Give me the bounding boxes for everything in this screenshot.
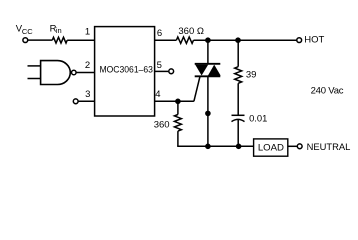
- node NEUTRAL terminal: [297, 144, 302, 149]
- NAND gate body: [41, 61, 71, 85]
- node junction A (triac branch): [205, 37, 211, 43]
- svg-text:4: 4: [155, 89, 160, 100]
- svg-text:5: 5: [157, 60, 162, 71]
- triac Q1 right triangle: [208, 65, 221, 76]
- wire pin 3 terminal to IC: [78, 100, 94, 102]
- svg-text:0.01: 0.01: [249, 113, 267, 124]
- svg-text:6: 6: [157, 28, 162, 39]
- svg-text:39: 39: [246, 70, 257, 81]
- wire junction A down to triac MT2: [207, 40, 209, 63]
- node junction pin 4: [175, 99, 181, 105]
- resistor 39: [235, 67, 242, 84]
- svg-text:NEUTRAL: NEUTRAL: [307, 141, 351, 152]
- triac Q1 MT1 bar: [195, 75, 221, 77]
- wire pin 5 stub: [155, 70, 169, 72]
- wire 39 resistor to capacitor: [237, 83, 239, 115]
- capacitor C1 top plate: [232, 114, 245, 116]
- node VCC terminal: [23, 38, 28, 43]
- label VCC: [16, 24, 34, 36]
- resistor 360 (gate): [174, 115, 181, 132]
- NAND gate bubble: [72, 70, 77, 75]
- wire NAND output to pin 2: [76, 71, 94, 73]
- triac Q1 MT2 bar: [195, 63, 221, 65]
- wire 360 resistor to bottom rail: [177, 131, 179, 146]
- svg-text:2: 2: [85, 60, 90, 71]
- capacitor C1 bottom plate (curved): [232, 119, 245, 121]
- wire capacitor to bottom rail: [237, 120, 239, 147]
- svg-text:240 Vac: 240 Vac: [311, 86, 344, 97]
- wire bottom rail: [177, 145, 253, 147]
- node HOT terminal: [297, 38, 302, 43]
- op-amp U1 MOC3061-63 body: [95, 27, 155, 116]
- svg-text:360: 360: [154, 119, 170, 130]
- node dot on triac leg: [205, 111, 211, 117]
- wire triac MT1 down to bottom rail: [207, 76, 209, 146]
- node junction B (snubber branch): [235, 37, 241, 43]
- node pin 3 terminal: [73, 99, 78, 104]
- wire pin4 junction down to 360 resistor: [177, 101, 179, 114]
- node junction bottom triac: [205, 144, 211, 150]
- label Rin: [50, 23, 62, 35]
- wire Rin to pin 1: [67, 39, 94, 41]
- svg-text:MOC3061–63: MOC3061–63: [99, 65, 153, 76]
- svg-text:in: in: [56, 26, 62, 35]
- load box: [254, 139, 288, 156]
- node junction bottom snubber: [236, 144, 242, 150]
- svg-text:360 Ω: 360 Ω: [178, 26, 204, 37]
- wire triac gate diagonal: [194, 76, 200, 101]
- wire top rail to HOT: [194, 39, 297, 41]
- wire pin 6 to 360 ohm resistor: [155, 39, 177, 41]
- svg-text:HOT: HOT: [304, 34, 324, 45]
- wire LOAD to NEUTRAL: [288, 145, 298, 147]
- svg-text:3: 3: [85, 89, 90, 100]
- wire pin 4 to gate: [155, 100, 194, 102]
- NAND gate input wires: [28, 66, 42, 79]
- wire VCC to Rin: [28, 39, 52, 41]
- resistor Rin: [52, 37, 67, 43]
- wire junction B down to 39 resistor: [237, 40, 239, 66]
- svg-text:LOAD: LOAD: [258, 142, 284, 153]
- resistor 360 ohm: [176, 37, 193, 43]
- triac Q1 left triangle: [195, 65, 208, 76]
- node pin 5 terminal: [169, 69, 174, 74]
- svg-text:CC: CC: [22, 27, 33, 36]
- svg-text:1: 1: [85, 27, 90, 38]
